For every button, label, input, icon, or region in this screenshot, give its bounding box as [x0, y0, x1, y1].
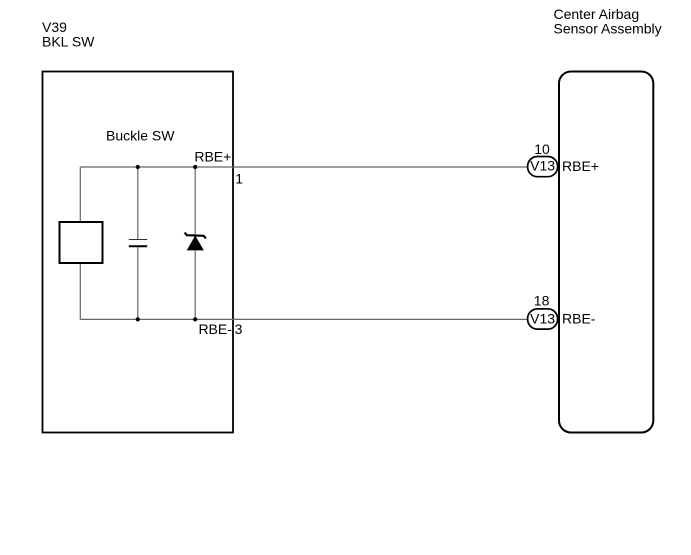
zener diode D1 cathode bar: [185, 233, 206, 239]
switch SW1 (buckle switch box): [60, 222, 103, 263]
wire zener branch upper: [194, 167, 196, 235]
capacitor C1 bottom plate: [129, 245, 147, 247]
junction node top-capacitor: [136, 165, 140, 169]
connector box Center Airbag Sensor Assembly: [559, 72, 653, 433]
wire capacitor branch upper: [137, 167, 139, 239]
wire RBE+ (top horizontal): [80, 166, 527, 168]
wire left vertical (switch branch upper): [79, 167, 81, 222]
wire zener branch lower: [194, 250, 196, 319]
svg-text:BKL SW: BKL SW: [42, 34, 95, 50]
wire left vertical (switch branch lower): [79, 263, 81, 319]
svg-text:3: 3: [235, 321, 243, 337]
svg-text:10: 10: [534, 141, 550, 157]
capacitor C1 top plate: [129, 239, 147, 241]
zener diode D1 anode triangle: [188, 237, 203, 250]
svg-text:V13: V13: [530, 310, 555, 326]
component box V39 BKL SW: [43, 72, 234, 433]
junction node top-zener: [193, 165, 197, 169]
svg-text:RBE-: RBE-: [562, 311, 596, 327]
junction node bottom-capacitor: [136, 317, 140, 321]
svg-text:18: 18: [534, 292, 550, 308]
connector oval V13 bottom: [528, 309, 558, 329]
junction node bottom-zener: [193, 317, 197, 321]
svg-text:V13: V13: [530, 158, 555, 174]
svg-text:Center Airbag: Center Airbag: [554, 6, 640, 22]
svg-text:RBE-: RBE-: [198, 321, 232, 337]
svg-text:RBE+: RBE+: [194, 148, 231, 164]
svg-text:1: 1: [235, 170, 243, 186]
wire capacitor branch lower: [137, 247, 139, 319]
connector oval V13 top: [528, 157, 558, 177]
svg-text:Buckle SW: Buckle SW: [106, 128, 175, 144]
svg-text:RBE+: RBE+: [562, 158, 599, 174]
wire RBE- (bottom horizontal): [80, 318, 527, 320]
svg-text:Sensor Assembly: Sensor Assembly: [554, 20, 662, 36]
